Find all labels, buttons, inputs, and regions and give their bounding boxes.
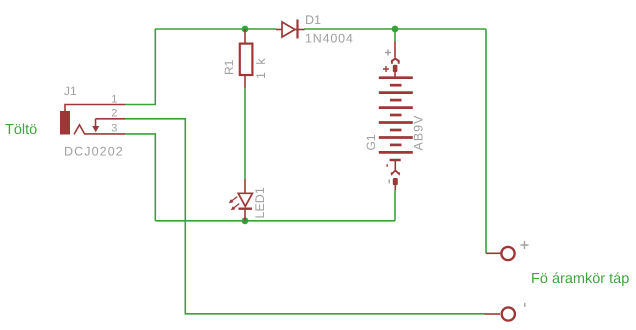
svg-text:G1: G1 xyxy=(364,134,378,150)
wire pin2 net to bottom output xyxy=(125,119,485,314)
wire top horizontal net right of diode xyxy=(304,28,486,30)
svg-text:J1: J1 xyxy=(64,84,77,98)
diode D1 xyxy=(276,20,305,39)
minus mark xyxy=(524,303,526,307)
svg-text:1N4004: 1N4004 xyxy=(305,32,354,46)
terminal pad plus xyxy=(486,247,515,260)
wire pin3 net to bottom rail xyxy=(125,134,155,221)
battery G1 xyxy=(392,42,399,78)
svg-text:3: 3 xyxy=(111,123,117,135)
battery plus marks xyxy=(385,50,391,56)
resistor R1 xyxy=(240,29,253,88)
svg-text:D1: D1 xyxy=(305,13,321,27)
wire right vertical to plus terminal xyxy=(485,29,487,253)
plus mark xyxy=(521,241,529,249)
junction dot at battery top xyxy=(392,26,399,33)
svg-text:LED1: LED1 xyxy=(253,187,267,218)
battery bottom terminal xyxy=(390,160,401,190)
junction dot at resistor top xyxy=(242,26,249,33)
svg-text:1: 1 xyxy=(111,93,117,105)
svg-text:Töltö: Töltö xyxy=(5,122,37,138)
svg-text:DCJ0202: DCJ0202 xyxy=(64,145,124,159)
svg-text:Fö áramkör táp: Fö áramkör táp xyxy=(531,271,629,287)
svg-text:AB9V: AB9V xyxy=(412,115,426,151)
wire bottom rail xyxy=(155,220,395,222)
svg-text:R1: R1 xyxy=(222,59,236,75)
junction dot at LED bottom xyxy=(242,217,249,224)
LED LED1 xyxy=(229,179,253,221)
wire top horizontal net left of diode xyxy=(155,28,277,30)
battery minus marks xyxy=(386,164,388,167)
battery plates xyxy=(379,78,413,153)
svg-text:2: 2 xyxy=(111,108,117,120)
wire battery top xyxy=(394,29,396,42)
wire battery bottom xyxy=(394,190,396,220)
wire resistor to LED xyxy=(244,88,246,179)
connector J1 xyxy=(60,105,125,135)
wire left vertical from pin1 to top xyxy=(154,29,156,105)
svg-text:1 k: 1 k xyxy=(254,56,268,79)
wire pin1 net horizontal xyxy=(125,104,156,106)
terminal pad minus xyxy=(485,307,515,320)
